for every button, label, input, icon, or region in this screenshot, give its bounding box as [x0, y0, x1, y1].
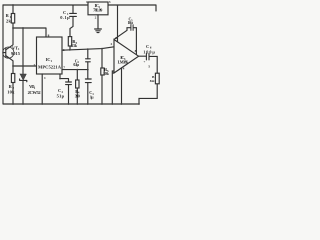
svg-text:2: 2: [111, 42, 113, 46]
svg-text:6: 6: [63, 48, 65, 52]
svg-text:51p: 51p: [57, 94, 65, 99]
svg-text:7: 7: [63, 66, 65, 70]
svg-text:1: 1: [44, 76, 46, 80]
svg-text:8: 8: [135, 49, 137, 53]
svg-text:100µ: 100µ: [143, 50, 155, 55]
svg-text:10µ: 10µ: [128, 20, 134, 25]
svg-text:2CW52: 2CW52: [28, 90, 41, 95]
svg-text:LM386: LM386: [118, 60, 128, 65]
svg-text:9015: 9015: [11, 51, 21, 56]
svg-text:4: 4: [123, 66, 125, 70]
svg-text:10k: 10k: [7, 89, 15, 94]
svg-text:8Ω: 8Ω: [150, 79, 155, 83]
svg-text:3: 3: [112, 71, 114, 75]
svg-text:3: 3: [109, 0, 111, 4]
svg-text:+: +: [143, 60, 145, 64]
svg-text:78L09: 78L09: [93, 8, 102, 13]
svg-text:6: 6: [115, 36, 117, 40]
svg-text:390: 390: [75, 93, 80, 98]
svg-text:1: 1: [86, 0, 88, 4]
svg-text:0.1µ: 0.1µ: [60, 15, 70, 20]
svg-text:33k: 33k: [71, 43, 78, 48]
svg-text:2: 2: [34, 63, 36, 67]
svg-text:8: 8: [48, 33, 50, 37]
svg-text:2k: 2k: [6, 18, 12, 23]
svg-text:MPC5221A: MPC5221A: [38, 64, 62, 69]
svg-text:0.1µ: 0.1µ: [73, 62, 79, 67]
svg-text:10k: 10k: [103, 71, 110, 76]
svg-text:2: 2: [95, 16, 97, 20]
svg-text:5: 5: [148, 64, 150, 68]
